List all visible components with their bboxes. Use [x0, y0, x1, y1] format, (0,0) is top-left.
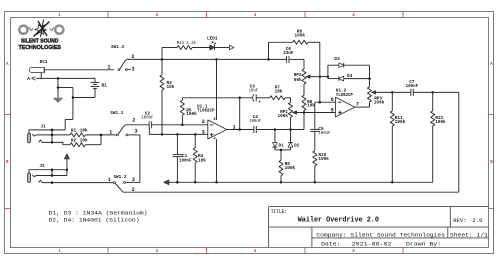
- wire V+ rail: [127, 58, 287, 60]
- diode D3: [328, 56, 370, 68]
- junction rail R9: [267, 58, 270, 61]
- resistor R3: [160, 59, 174, 134]
- junction RP1 bottom: [289, 128, 292, 131]
- svg-text:DC1: DC1: [40, 59, 48, 65]
- svg-text:10k: 10k: [198, 157, 206, 163]
- resistor R12: [431, 92, 446, 182]
- svg-text:TECHNOLOGIES: TECHNOLOGIES: [18, 45, 61, 51]
- wire ground to battery return: [58, 88, 73, 130]
- svg-text:A: A: [27, 76, 30, 82]
- junction R3 pin3: [161, 133, 164, 136]
- svg-text:TL082CP: TL082CP: [336, 92, 353, 98]
- svg-text:5: 5: [331, 107, 334, 113]
- wire U1.2 pin5: [304, 112, 335, 114]
- resistor R10: [313, 151, 329, 184]
- resistor R9: [269, 29, 320, 103]
- wire U1.1 output: [227, 129, 254, 131]
- riser output to feedback: [238, 98, 241, 131]
- svg-text:100nF: 100nF: [249, 118, 261, 124]
- wire C4 to clipper: [256, 129, 304, 131]
- svg-text:J1: J1: [40, 124, 45, 130]
- svg-text:10k: 10k: [307, 103, 315, 109]
- wire U1.2 output: [355, 102, 370, 107]
- svg-text:7: 7: [356, 101, 359, 107]
- wire Dpair right: [368, 65, 371, 80]
- connector DC1: [30, 59, 48, 78]
- wire rail to RP2: [289, 59, 304, 69]
- svg-text:100k: 100k: [395, 119, 406, 125]
- resistor R13: [162, 40, 196, 59]
- potentiometer RP3: [368, 79, 393, 106]
- svg-text:R13 3.3k: R13 3.3k: [177, 40, 196, 46]
- junction RP3 wiper R11: [391, 91, 394, 94]
- svg-text:6: 6: [331, 97, 334, 103]
- diode D4: [328, 73, 370, 81]
- svg-text:Sheet: 1/1: Sheet: 1/1: [450, 231, 489, 238]
- junction C1 pin3: [176, 133, 179, 136]
- svg-text:100nF: 100nF: [141, 115, 153, 121]
- wire B1 minus: [72, 96, 95, 99]
- svg-text:D2, D4: 1N4001 (Silicon): D2, D4: 1N4001 (Silicon): [49, 217, 140, 224]
- svg-text:SILENT SOUND: SILENT SOUND: [21, 39, 59, 45]
- svg-text:33nF: 33nF: [283, 50, 294, 56]
- svg-text:100k: 100k: [285, 165, 296, 171]
- wire U1.2 pin6: [315, 102, 336, 129]
- svg-text:100nF: 100nF: [318, 130, 330, 136]
- svg-text:TL082CP: TL082CP: [197, 108, 215, 114]
- svg-text:Date:: Date:: [321, 241, 340, 248]
- svg-text:100k: 100k: [294, 33, 305, 39]
- wire feedback U1.1: [182, 97, 253, 99]
- potentiometer RP1: [278, 102, 304, 129]
- switch SW1.1: [109, 110, 140, 136]
- LED LED1: [192, 36, 229, 51]
- junction C7 R12: [431, 91, 434, 94]
- svg-text:B1: B1: [102, 83, 107, 89]
- battery B1: [91, 82, 107, 97]
- capacitor C5: [310, 126, 330, 151]
- resistor R7: [270, 85, 291, 103]
- svg-text:8: 8: [214, 118, 216, 122]
- svg-text:100k: 100k: [435, 119, 446, 125]
- junction D2: [289, 128, 292, 131]
- svg-text:100k: 100k: [278, 113, 289, 119]
- net arrow A up: [64, 154, 69, 176]
- potentiometer RP2: [294, 69, 328, 84]
- svg-text:100nF: 100nF: [179, 157, 192, 163]
- svg-text:4: 4: [214, 137, 216, 141]
- svg-text:10k: 10k: [80, 128, 88, 134]
- diode D2: [288, 130, 299, 150]
- svg-text:D2: D2: [294, 143, 299, 149]
- capacitor C6: [283, 46, 294, 63]
- junction RP2 wiper Dpair: [327, 75, 330, 78]
- svg-text:1: 1: [107, 65, 110, 71]
- svg-text:D3: D3: [334, 56, 339, 62]
- wire SW1.1 pin3 to SW1.2 pin3: [139, 135, 141, 182]
- junction RP2 wiper R9 col: [319, 75, 322, 78]
- svg-text:2: 2: [132, 117, 135, 123]
- capacitor C3 10uF: [249, 84, 270, 105]
- wire output loop: [123, 92, 459, 192]
- svg-text:R1: R1: [71, 128, 76, 134]
- resistor R4: [193, 134, 206, 183]
- switch SW1.2: [108, 174, 140, 193]
- svg-text:50k: 50k: [294, 77, 302, 83]
- svg-text:D4: D4: [347, 73, 352, 79]
- svg-text:2: 2: [132, 187, 135, 193]
- wire U1.1 V+ pin8: [214, 59, 217, 122]
- svg-text:D1: D1: [279, 143, 284, 149]
- switch SW1.3: [111, 44, 135, 72]
- capacitor C1: [173, 134, 192, 183]
- svg-text:3: 3: [132, 177, 135, 183]
- op-amp U1.1: [197, 104, 236, 139]
- resistor R1: [70, 128, 117, 137]
- svg-text:100k: 100k: [186, 111, 197, 117]
- wire net A to B1 plus: [58, 78, 95, 82]
- wire U1.1 pin3: [149, 128, 208, 135]
- wire DC1 tip to SW1.3 pin1: [44, 65, 114, 71]
- svg-text:2.0: 2.0: [472, 217, 483, 224]
- junction net A ground tap: [57, 77, 60, 87]
- wire clipper bottom: [275, 149, 291, 151]
- junction R5 pin2: [181, 124, 184, 127]
- svg-text:100nF: 100nF: [406, 83, 419, 89]
- resistor R11: [390, 92, 405, 183]
- junction D1: [274, 128, 277, 131]
- junction R8 RP1 wiper: [303, 111, 306, 114]
- svg-text:LED1: LED1: [207, 36, 218, 42]
- junction R4 pin3: [194, 133, 197, 136]
- svg-text:2021-06-02: 2021-06-02: [352, 241, 392, 248]
- wire Dpair left: [327, 65, 329, 78]
- svg-text:SW1.3: SW1.3: [111, 44, 124, 50]
- resistor R8: [302, 84, 315, 112]
- svg-text:10k: 10k: [275, 89, 283, 95]
- svg-text:R2: R2: [71, 137, 76, 143]
- junction rail U1.1 V+: [215, 58, 218, 61]
- svg-text:100k: 100k: [374, 100, 385, 106]
- connector J2: [28, 163, 114, 184]
- junction pin6 feedback: [319, 101, 322, 104]
- capacitor C2: [141, 111, 153, 129]
- svg-text:1: 1: [108, 177, 111, 183]
- svg-text:3: 3: [135, 128, 138, 134]
- global label A: [27, 76, 35, 82]
- svg-text:1: 1: [109, 130, 112, 136]
- note diodes: [49, 210, 148, 224]
- svg-text:Wailer Overdrive 2.0: Wailer Overdrive 2.0: [298, 217, 379, 225]
- svg-text:3: 3: [132, 66, 135, 72]
- diode D1: [273, 130, 284, 150]
- logo Silent Sound Technologies: [18, 20, 63, 52]
- capacitor C7: [392, 79, 432, 96]
- wire SW1.1 pin2 to C2: [126, 124, 150, 126]
- resistor R2: [70, 135, 101, 147]
- net arrow after LED1: [229, 45, 234, 50]
- svg-text:SW1.1: SW1.1: [110, 110, 123, 116]
- svg-text:SW1.2: SW1.2: [113, 174, 126, 180]
- svg-text:10k: 10k: [80, 137, 88, 143]
- wire R8 node to output wire: [303, 113, 305, 130]
- capacitor C4: [249, 114, 261, 133]
- svg-text:D1, D3 : 1N34A (Germanium): D1, D3 : 1N34A (Germanium): [49, 210, 148, 217]
- svg-text:2: 2: [202, 119, 205, 125]
- resistor R6: [279, 149, 295, 184]
- wire U1.1 V- pin4: [214, 137, 218, 183]
- svg-text:10k: 10k: [167, 84, 175, 90]
- junction feedback output riser: [238, 97, 241, 100]
- svg-text:Company: Silent Sound Technolo: Company: Silent Sound Technologies: [316, 231, 445, 238]
- resistor R5: [180, 98, 196, 125]
- connector J1: [28, 124, 71, 145]
- wire gnd rail: [169, 181, 433, 184]
- wire C2 to U1.1 pin2: [152, 124, 208, 126]
- svg-text:Drawn By:: Drawn By:: [406, 241, 441, 248]
- net arrow gnd rail: [164, 180, 169, 185]
- svg-text:J2: J2: [39, 163, 44, 169]
- title block: [269, 207, 489, 248]
- svg-text:3: 3: [202, 129, 205, 135]
- op-amp U1.2: [331, 88, 359, 117]
- svg-text:10uF: 10uF: [249, 87, 259, 93]
- svg-text:100k: 100k: [318, 156, 329, 162]
- svg-text:TITLE:: TITLE:: [271, 208, 287, 215]
- junction rail R13: [161, 58, 164, 61]
- junction R1 R2: [100, 134, 103, 137]
- ground symbol: [54, 86, 63, 102]
- wire net A: [36, 77, 58, 79]
- svg-text:REV:: REV:: [453, 217, 466, 224]
